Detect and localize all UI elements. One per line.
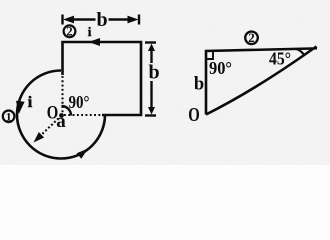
svg-text:b: b xyxy=(148,62,159,84)
svg-text:O: O xyxy=(47,103,59,124)
square left edge dotted part xyxy=(61,76,63,114)
triangle outline xyxy=(206,49,314,115)
svg-text:2: 2 xyxy=(248,30,255,45)
square bottom edge dotted part xyxy=(64,114,101,116)
svg-text:i: i xyxy=(88,24,92,39)
svg-text:90°: 90° xyxy=(209,58,232,78)
dimension right arrowhead xyxy=(128,16,139,24)
svg-text:2: 2 xyxy=(66,25,72,39)
svg-text:45°: 45° xyxy=(269,49,291,69)
current arrowhead on circle bottom-right (pointing up-right) xyxy=(77,149,88,159)
dimension up arrowhead xyxy=(148,44,155,52)
current arrowhead on top edge (pointing left) xyxy=(89,38,101,46)
scan grain xyxy=(0,0,1,1)
node O dot xyxy=(59,113,64,118)
circled 2 (left figure) xyxy=(64,25,76,37)
45-degree arc at right vertex xyxy=(297,49,305,56)
dimension line b (top), right tick xyxy=(138,15,140,25)
circular loop (3/4 circle) around O xyxy=(17,71,105,159)
svg-text:O: O xyxy=(188,105,200,126)
dimension left arrowhead xyxy=(63,16,74,24)
dimension b (right), upper segment xyxy=(150,49,152,63)
radius a dotted arrow from O xyxy=(37,116,62,140)
svg-text:1: 1 xyxy=(6,109,12,123)
svg-text:i: i xyxy=(28,94,33,111)
dimension b (right), lower segment xyxy=(150,81,152,109)
dimension line b (top), left segment xyxy=(72,18,96,20)
current arrowhead on circle left (pointing down) xyxy=(16,101,25,114)
dimension b (right), bottom tick xyxy=(145,114,156,116)
square loop: solid part (left-upper, top, right, bottom-right) xyxy=(63,42,142,115)
circled 1 xyxy=(3,111,15,123)
right angle mark xyxy=(206,52,213,59)
circled 2 (triangle) xyxy=(245,32,258,45)
svg-text:b: b xyxy=(194,75,204,95)
svg-text:b: b xyxy=(96,9,107,31)
dimension line b (top), right segment xyxy=(109,18,131,20)
svg-text:90°: 90° xyxy=(69,92,90,112)
dimension down arrowhead xyxy=(148,107,155,115)
triangle corner overshoot strokes xyxy=(314,47,318,49)
dimension b (right), top tick xyxy=(145,41,156,43)
90-degree arc at O xyxy=(62,106,72,116)
dimension line b (top), left tick xyxy=(61,15,63,25)
